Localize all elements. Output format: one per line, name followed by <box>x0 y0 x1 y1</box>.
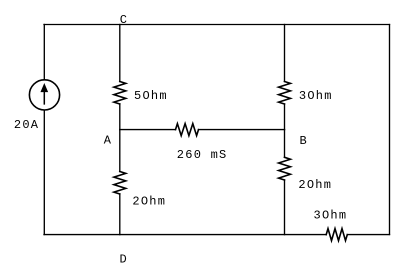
svg-text:3Ohm: 3Ohm <box>314 208 348 222</box>
svg-text:C: C <box>120 13 128 27</box>
svg-text:260 mS: 260 mS <box>177 148 228 162</box>
wire right 2 Ohm resistor to D rail <box>284 180 286 235</box>
current source I1 arrow <box>41 84 47 104</box>
wire 5 Ohm resistor to node A <box>119 104 121 130</box>
wire C to 5 Ohm resistor <box>119 25 121 82</box>
wire node A to 260 mS resistor <box>120 129 176 131</box>
resistor 5 Ohm zigzag <box>114 82 126 105</box>
wire 260 mS resistor to node B <box>199 129 285 131</box>
wire bottom right segment (3 Ohm resistor to right corner) <box>347 234 389 236</box>
resistor 2 Ohm (left) zigzag <box>114 172 126 195</box>
resistor 3 Ohm (top right) zigzag <box>279 82 291 105</box>
svg-text:5Ohm: 5Ohm <box>134 89 168 103</box>
svg-text:20A: 20A <box>14 118 39 132</box>
wire node B to right 2 Ohm resistor <box>284 130 286 158</box>
resistor 3 Ohm (bottom) zigzag <box>326 229 347 241</box>
wire node A to left 2 Ohm resistor <box>119 130 121 172</box>
svg-text:A: A <box>104 133 112 147</box>
svg-text:D: D <box>120 253 128 267</box>
wire left 2 Ohm resistor to D rail <box>119 194 121 235</box>
svg-text:3Ohm: 3Ohm <box>299 89 333 103</box>
resistor 260 mS zigzag <box>176 124 199 136</box>
current source I1 circle <box>29 80 59 110</box>
svg-text:B: B <box>300 134 308 148</box>
wire left lower (current source to bottom corner) <box>43 110 45 234</box>
wire bottom left segment (D rail to 3 Ohm resistor) <box>44 234 326 236</box>
wire top (C rail from left corner to right corner) <box>44 24 390 26</box>
svg-text:2Ohm: 2Ohm <box>132 194 166 208</box>
wire right side <box>389 25 391 235</box>
svg-text:2Ohm: 2Ohm <box>298 178 332 192</box>
wire left upper (top corner to current source) <box>43 25 45 80</box>
wire 3 Ohm resistor to node B <box>284 104 286 130</box>
resistor 2 Ohm (right) zigzag <box>279 157 291 180</box>
wire top rail to 3 Ohm resistor (right branch) <box>284 25 286 82</box>
